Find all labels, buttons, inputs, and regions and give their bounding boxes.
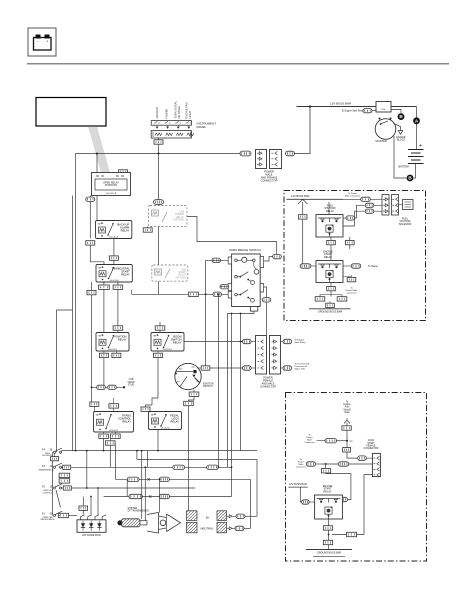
svg-text:STUD: STUD [128, 384, 135, 386]
left secondary vertical wire [72, 196, 74, 451]
wire to cold start pin1 [347, 452, 357, 458]
engine ground buss bar [309, 308, 351, 310]
svg-text:4-B 4-B 4-B: 4-B 4-B 4-B [163, 349, 173, 351]
fuse on engine feed [298, 215, 307, 219]
svg-text:12V BUSS BAR: 12V BUSS BAR [291, 194, 310, 198]
open relay position box [92, 173, 131, 196]
svg-text:320: 320 [350, 441, 353, 443]
svg-text:CONTROL: CONTROL [43, 492, 54, 494]
transmission connector male half [217, 511, 232, 533]
wire open relay left branch [89, 196, 91, 197]
breaker F3 [38, 463, 62, 471]
svg-text:12V BUSS BAR: 12V BUSS BAR [330, 102, 352, 106]
wire labels row 2 [173, 465, 185, 469]
node A [413, 117, 420, 124]
wire pin relay columns down [103, 289, 105, 332]
svg-text:CAB: CAB [181, 269, 186, 272]
connector into power block row1 [243, 339, 252, 343]
B+ feed row [137, 459, 257, 461]
fuse right of ignition switch [201, 366, 210, 370]
callout box [36, 98, 106, 127]
wire park brake right lower down [266, 302, 268, 336]
connector on left branch [86, 197, 95, 201]
wire down to shifter bracket [159, 479, 161, 512]
wire ignition ground down to shifter [188, 406, 190, 511]
wire ignition switch bottom [193, 390, 195, 392]
wire labels below pin relay [99, 285, 110, 289]
wire left branch jog to pin relay [90, 245, 104, 264]
long wire row 1 [62, 450, 258, 452]
svg-text:Male Connector: Male Connector [345, 195, 361, 198]
fuse below backup relay [86, 241, 95, 245]
svg-text:Valve: Valve [344, 412, 350, 414]
svg-text:4-B 3-B 2-B: 4-B 3-B 2-B [106, 193, 117, 195]
power block out row4 [281, 367, 284, 369]
transmission connector female half [187, 511, 198, 533]
wire label below Y [342, 426, 351, 430]
svg-text:SOLENOID: SOLENOID [399, 223, 412, 226]
fuel shutoff solenoid [403, 200, 414, 210]
connector fuel relay out 2 [365, 209, 374, 213]
wire B+ to connector [232, 515, 236, 517]
svg-text:TURN SIGNAL: TURN SIGNAL [173, 101, 177, 119]
starter motor [375, 118, 396, 140]
wire fuse down the center column [158, 144, 160, 205]
wire park brake right lower [264, 287, 267, 298]
svg-text:+: + [47, 40, 49, 44]
cab start relay option box [152, 265, 188, 281]
wire backup relay bottom [113, 239, 115, 256]
svg-text:To Starter: To Starter [368, 265, 378, 268]
connector below park brake right [262, 298, 271, 302]
ground buss bar bottom [306, 549, 352, 551]
wire NEUTRAL to connector [232, 527, 235, 529]
wire instrument panel to fuse [158, 138, 160, 140]
breaker linkage F2 to F1 [56, 490, 61, 508]
engine block ground [394, 124, 406, 142]
svg-text:RELAY: RELAY [121, 273, 130, 277]
svg-text:BAT: BAT [96, 413, 99, 416]
connector park brake right top [273, 254, 282, 258]
wire up to park brake top pin [205, 260, 207, 294]
wire row3 corner up [249, 479, 251, 528]
ignition switch [175, 363, 201, 389]
park brake bottom tab [250, 307, 257, 312]
svg-text:BAT: BAT [98, 222, 101, 225]
svg-text:BAT: BAT [151, 413, 154, 416]
wire fuse to engine start relay [300, 219, 303, 266]
engine start relay bottom [315, 495, 343, 519]
wire label below boom relay [154, 353, 163, 357]
wire solenoid to node B [391, 110, 401, 114]
cab power relay option box [149, 206, 188, 227]
svg-text:CAB: CAB [129, 378, 134, 381]
fuel solenoid female connector block [392, 195, 399, 216]
svg-text:FEMALE: FEMALE [366, 444, 376, 447]
svg-text:4-B 4-B 4-B: 4-B 4-B 4-B [161, 427, 171, 429]
svg-text:4-B 4-B 4-B: 4-B 4-B 4-B [109, 430, 119, 432]
node B top [398, 113, 405, 120]
fuse above boom switch relay [155, 326, 165, 330]
svg-text:BAT: BAT [98, 266, 101, 269]
wire starter to node B bottom [394, 136, 407, 178]
svg-text:RELAY: RELAY [324, 256, 332, 259]
battery page icon [28, 28, 56, 56]
fuses below fuel shutoff relay [330, 237, 332, 240]
wire cold start pin4 down [332, 475, 372, 535]
power female connector block [270, 150, 282, 169]
svg-text:RELAY: RELAY [326, 210, 334, 213]
svg-text:BAT: BAT [98, 334, 101, 337]
svg-text:BAT: BAT [153, 334, 156, 337]
fuel shutoff relay outputs [343, 217, 346, 219]
svg-text:CONNECTOR: CONNECTOR [261, 178, 278, 182]
fuse above pedal lock relay [141, 407, 150, 411]
svg-text:TRANSMISSION: TRANSMISSION [38, 468, 54, 471]
fuse right of F2 [63, 486, 71, 490]
header rule [27, 63, 449, 65]
fuse above diode pack [79, 506, 88, 510]
starter solenoid [376, 102, 391, 113]
wire pedal relay down [157, 430, 159, 451]
wire label left column [87, 290, 96, 294]
svg-text:NEUTRAL: NEUTRAL [201, 527, 214, 531]
fuse right of F1 [58, 513, 68, 517]
left feed wire from bus [75, 154, 77, 451]
wire label below junction row2 [321, 469, 330, 473]
link row1 row2 [147, 451, 149, 468]
link wire rows mid [126, 479, 128, 496]
connector on park brake top wire [212, 258, 221, 262]
long wire row 4 [72, 487, 196, 489]
svg-text:LIFT DIODE PACK: LIFT DIODE PACK [82, 534, 102, 537]
pin neutral start relay [96, 265, 132, 283]
svg-text:SWITCH: SWITCH [203, 385, 213, 388]
buss bar V split [298, 199, 307, 204]
instrument panel rotated labels [155, 101, 192, 119]
wire labels row 3 [127, 477, 139, 481]
wire bar to relay [300, 487, 301, 502]
shifter bracket [147, 513, 181, 534]
wire down to shifter shaft 2 [144, 467, 146, 520]
lift diode pack [77, 515, 106, 533]
connector on bus [240, 151, 251, 156]
svg-text:RELAY: RELAY [118, 338, 127, 342]
connector right of power connector [286, 151, 295, 156]
Y splice [344, 420, 350, 423]
wire label below junction [343, 448, 351, 452]
svg-text:4-B 4-B 4-B: 4-B 4-B 4-B [108, 349, 118, 351]
svg-text:Connector: Connector [304, 441, 314, 444]
svg-text:Start Relay: Start Relay [295, 341, 307, 344]
svg-text:PARK BRAKE SWITCH: PARK BRAKE SWITCH [229, 248, 261, 252]
svg-text:POSITION: POSITION [105, 184, 117, 187]
connector into power block row4 [243, 366, 252, 370]
callout beam [88, 127, 110, 173]
power female connector block mid [256, 336, 267, 375]
svg-text:RELAY: RELAY [323, 490, 331, 493]
svg-text:RELAY: RELAY [179, 274, 187, 277]
svg-text:START: START [179, 271, 187, 274]
fuses above trans control relay [90, 402, 99, 406]
stacked fuses below F3 [59, 473, 70, 477]
ground branch labels [315, 297, 325, 301]
node B bottom [407, 175, 414, 182]
fuel shutoff relay [316, 215, 343, 238]
svg-text:BATTERY: BATTERY [398, 166, 410, 169]
pedal lock relay [149, 412, 182, 430]
wire to engine start relay top [330, 245, 332, 260]
breaker F2 [42, 484, 62, 495]
instrument panel terminal strip [151, 121, 194, 138]
wires above diode pack [90, 497, 92, 515]
svg-text:OF TRANSMISSION: OF TRANSMISSION [128, 509, 150, 512]
svg-text:(OPTION): (OPTION) [176, 277, 187, 279]
wire label on pin4 wire [347, 532, 357, 536]
svg-text:RELAY: RELAY [121, 229, 130, 233]
svg-text:ENGINE PRO: ENGINE PRO [184, 102, 188, 118]
engine start relay mid [316, 261, 343, 283]
wire down to shifter shaft 1 [141, 451, 143, 519]
breaker F4 [42, 448, 62, 457]
engine start relay left pill [300, 264, 311, 268]
fuse below instrument panel [154, 140, 163, 144]
wires park brake bottom down [227, 311, 254, 467]
svg-text:RELAY: RELAY [170, 420, 179, 424]
fuse below F4 [51, 457, 59, 461]
long wire row 5 [104, 496, 232, 498]
wire to fuel shutoff solenoid [399, 204, 403, 206]
power male connector block [256, 150, 267, 169]
svg-text:Splice 320: Splice 320 [295, 369, 306, 371]
main power bus wire [76, 153, 241, 155]
battery [408, 142, 424, 164]
wire pin relay to park brake switch [132, 293, 232, 295]
wire junction to relay right [326, 473, 351, 500]
wire F4 to row [61, 451, 62, 453]
svg-text:(OPTION): (OPTION) [173, 219, 184, 222]
svg-text:PANEL: PANEL [197, 125, 207, 129]
svg-text:POWER: POWER [164, 109, 168, 119]
wire down to B+ connector [256, 460, 258, 517]
wire label on park brake wire [189, 292, 199, 296]
svg-text:B+: B+ [206, 515, 210, 519]
connector on buss to male connector [343, 198, 361, 200]
wire boom relay to power connector [184, 341, 243, 343]
svg-text:Connector: Connector [346, 292, 356, 295]
power male connector block mid [270, 336, 281, 375]
breaker F1 [41, 511, 62, 521]
svg-text:Connector: Connector [296, 465, 306, 468]
wire cab power relay down [158, 227, 160, 266]
long wire row 2 [71, 466, 232, 468]
svg-text:4-B 4-B 4-B: 4-B 4-B 4-B [110, 280, 120, 282]
svg-text:Shutoff: Shutoff [343, 408, 351, 411]
engine relay lower right fuse [343, 275, 352, 276]
svg-text:+: + [419, 143, 422, 149]
fuse on open relay box [119, 170, 128, 174]
svg-text:GROUND: GROUND [155, 107, 159, 119]
svg-text:CONNECTOR: CONNECTOR [260, 385, 276, 388]
svg-text:START: START [367, 442, 375, 445]
12V buss bar bottom [288, 486, 307, 488]
center vertical wire right of ignition feed [217, 294, 219, 467]
junction on park brake wire [205, 293, 207, 295]
junction of bus and center column [158, 153, 160, 155]
wire split to fuse [302, 202, 304, 215]
connector above cab power relay [154, 200, 164, 205]
wire labels below ignition relay [99, 353, 108, 357]
wire engine relay bottom [330, 283, 332, 297]
left column wire down [91, 282, 93, 290]
wire battery negative to node B bottom [414, 164, 416, 179]
svg-text:RELAY: RELAY [122, 420, 131, 424]
wire row2 to junction [306, 463, 308, 465]
fuse above pin neutral relay [109, 256, 118, 260]
fuse below cab power relay [143, 228, 152, 232]
wire power male to junction [317, 440, 326, 442]
wire park brake right top to upper bus [264, 257, 273, 261]
wire labels below trans relay [99, 434, 109, 438]
left breaker common wire [52, 452, 54, 515]
park brake switch box [228, 254, 263, 311]
trans control relay [94, 412, 134, 433]
back-up alarm relay [96, 221, 132, 239]
wire relay bottom ground [328, 519, 330, 550]
wire left branch down [89, 201, 91, 238]
svg-text:GROUND BUSS BAR: GROUND BUSS BAR [318, 310, 343, 313]
wire jog to far left column [57, 310, 73, 452]
wire cab start relay down [158, 281, 160, 294]
engine compartment dashed box [284, 191, 426, 321]
svg-text:−: − [37, 40, 39, 44]
wire row1 branch jog [136, 451, 138, 460]
long wire row 3 [115, 478, 250, 480]
wire down to junction 320 [346, 430, 348, 447]
svg-text:BLOCK: BLOCK [397, 139, 406, 142]
svg-text:4-B 4-B 4-B: 4-B 4-B 4-B [109, 236, 119, 238]
fuse right of F3 [63, 465, 71, 469]
link wire rows left [86, 451, 88, 488]
svg-text:RELAY: RELAY [173, 341, 182, 345]
wire park brake tab to power block row1 [240, 314, 242, 342]
svg-text:12V BUSS BAR: 12V BUSS BAR [289, 483, 307, 486]
wire labels row 5 [129, 494, 142, 498]
ignition relay [96, 333, 129, 352]
svg-text:WHOLE MACH: WHOLE MACH [41, 518, 55, 521]
cold start female connector block [372, 453, 380, 476]
wire split to fuel shutoff relay [328, 202, 330, 215]
svg-text:STARTER: STARTER [375, 140, 387, 143]
12V buss bar top [297, 106, 417, 108]
wire ignition switch to power connector [210, 367, 243, 369]
cab ground stud [91, 378, 135, 389]
svg-text:OR PANEL: OR PANEL [177, 105, 181, 118]
svg-text:CONNECTOR: CONNECTOR [364, 448, 379, 450]
svg-text:To Engine Start Relay: To Engine Start Relay [342, 109, 365, 112]
wire upper feed to ignition fuse [205, 294, 207, 366]
wire trans relay down [103, 438, 105, 450]
ground bar label box [326, 303, 335, 307]
wire park brake lower-left pill [220, 285, 229, 289]
svg-text:LIGHT: LIGHT [188, 110, 192, 118]
fuel solenoid male connector block [382, 195, 389, 216]
wire power block row1 down to row1 [239, 342, 241, 451]
shifter handle [117, 519, 147, 527]
fuse above ignition relay [113, 326, 123, 330]
power block out row1 [281, 341, 284, 343]
wire ignition relay down [103, 358, 105, 388]
wire power connector to 12V buss bar [295, 107, 311, 154]
wire buss bar to battery positive [416, 107, 418, 143]
boom switch relay [151, 333, 184, 352]
connector fuel relay out 1 [365, 203, 374, 207]
connector to starter solenoid [363, 109, 372, 113]
cold start dashed box [286, 393, 427, 562]
engine start relay right output [343, 265, 352, 267]
connector on park brake wire [213, 292, 222, 296]
engine 12V buss bar [287, 198, 344, 200]
connector cold start pin1 [358, 456, 367, 460]
svg-text:GROUND BUSS BAR: GROUND BUSS BAR [317, 551, 342, 554]
wire open relay to backup relay [96, 196, 98, 221]
wire bus to open relay box [96, 154, 98, 173]
